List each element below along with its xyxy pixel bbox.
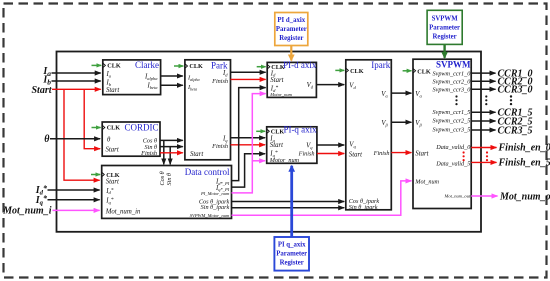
- block U2 Park: [185, 60, 231, 160]
- wire Sin theta_ipark to Ipark: [232, 207, 345, 209]
- clk stub CORDIC: [92, 127, 101, 129]
- svg-text:θ: θ: [44, 134, 50, 145]
- wire output CCR2_5: [471, 120, 495, 122]
- wire Park Finish to PI-d Start: [231, 78, 266, 80]
- dots vertical in CCR label column black: [510, 95, 512, 105]
- wire output Finish_en_0 red: [471, 147, 496, 149]
- wire output CCR1_0: [471, 72, 495, 74]
- wire Cos theta CORDIC to Park: [160, 139, 183, 141]
- wire input Ia: [52, 72, 101, 74]
- arrow PI d register down: [290, 46, 292, 61]
- wire SVPWM_Motor_num magenta to SVPWM: [232, 181, 412, 215]
- svg-text:Data_valid_5: Data_valid_5: [435, 160, 470, 167]
- svg-text:Svpwm_ccr2_0: Svpwm_ccr2_0: [432, 78, 471, 85]
- arrow PI q register up: [290, 166, 293, 237]
- svg-text:Register: Register: [433, 33, 457, 40]
- clk stub PI-d: [257, 66, 266, 68]
- svg-text:CORDIC: CORDIC: [124, 122, 158, 132]
- wire output CCR3_5: [471, 129, 495, 131]
- svg-text:PI-q axix: PI-q axix: [283, 125, 317, 135]
- svg-text:Motor_num: Motor_num: [269, 157, 300, 164]
- svg-text:Start: Start: [270, 142, 284, 149]
- svg-text:Motor_num: Motor_num: [269, 92, 292, 97]
- wire Sin theta CORDIC to Park: [160, 146, 183, 148]
- wire Start branch to Data control: [64, 89, 100, 180]
- wire PI-q Finish to Ipark Start: [317, 153, 344, 155]
- svg-text:PI q_axix: PI q_axix: [278, 242, 306, 249]
- wire Ialpha Clarke to Park: [161, 75, 183, 77]
- block U8 Data control: [102, 166, 232, 219]
- wire CORDIC Finish to Park Start: [160, 152, 183, 154]
- svg-text:Park: Park: [211, 61, 228, 71]
- svg-text:PI-d axix: PI-d axix: [283, 60, 317, 70]
- svg-text:Finish_en_0: Finish_en_0: [498, 143, 550, 154]
- arrow SVPWM register down: [443, 45, 445, 58]
- svg-text:Start: Start: [415, 150, 429, 157]
- wire Park Iq to PI-q: [231, 137, 266, 139]
- svg-text:Finish: Finish: [298, 151, 315, 158]
- svg-text:Start: Start: [31, 85, 52, 96]
- wire Park Finish to PI-q Start: [231, 144, 266, 146]
- svg-text:Svpwm_ccr3_0: Svpwm_ccr3_0: [432, 86, 471, 93]
- svg-text:Start: Start: [106, 147, 120, 154]
- wire output CCR1_5: [471, 111, 495, 113]
- svg-text:Finish: Finish: [211, 78, 228, 85]
- svg-text:Parameter: Parameter: [276, 251, 307, 258]
- svg-text:SVPWM: SVPWM: [436, 60, 471, 70]
- svg-text:Data_valid_0: Data_valid_0: [435, 144, 471, 151]
- clk stub Data control: [91, 174, 100, 176]
- svg-text:Clarke: Clarke: [135, 60, 159, 70]
- block U3 CORDIC: [102, 122, 160, 157]
- wire Cos theta_ipark to Ipark: [232, 201, 345, 203]
- svg-text:Svpwm_ccr1_5: Svpwm_ccr1_5: [432, 109, 470, 116]
- svg-text:Start: Start: [106, 87, 120, 94]
- svg-text:CLK: CLK: [107, 63, 121, 70]
- clk stub Ipark: [335, 69, 344, 71]
- svg-text:CLK: CLK: [417, 68, 431, 75]
- block U4 PI-d axis: [267, 60, 317, 98]
- register box PI d_axix Parameter Register: [275, 13, 308, 46]
- svg-text:Data control: Data control: [185, 167, 230, 177]
- wire Valpha Ipark to SVPWM: [391, 92, 411, 94]
- dots vertical outside SVPWM red: [486, 151, 488, 161]
- svg-text:Svpwm_ccr2_5: Svpwm_ccr2_5: [432, 118, 470, 125]
- clk stub Clarke: [92, 64, 102, 66]
- svg-text:Mot_num_in: Mot_num_in: [105, 208, 141, 215]
- svg-text:Start: Start: [270, 77, 284, 84]
- svg-text:CLK: CLK: [189, 63, 203, 70]
- wire input theta: [50, 138, 100, 140]
- wire Vq PI-q to Ipark: [317, 144, 344, 146]
- svg-text:Svpwm_ccr1_0: Svpwm_ccr1_0: [432, 70, 471, 77]
- wire Sin theta drop to Data control: [169, 147, 171, 165]
- svg-text:Mot_num_o: Mot_num_o: [499, 191, 550, 202]
- clk stub Park: [174, 65, 183, 67]
- register box SVPWM Parameter Register: [427, 10, 462, 44]
- svg-text:Ipark: Ipark: [371, 60, 390, 70]
- wire output CCR2_0: [471, 80, 495, 82]
- wire Ibeta Clarke to Park: [161, 84, 183, 86]
- svg-text:Parameter: Parameter: [276, 26, 307, 33]
- svg-text:CLK: CLK: [107, 125, 121, 132]
- svg-text:CLK: CLK: [271, 129, 285, 136]
- svg-text:CCR3_0: CCR3_0: [498, 85, 533, 96]
- svg-text:Start: Start: [349, 151, 363, 158]
- wire Data control Iq*_PI to PI-q: [232, 154, 266, 187]
- svg-text:Start: Start: [190, 151, 204, 158]
- svg-text:Finish: Finish: [373, 150, 390, 157]
- block U1 Clarke: [103, 60, 161, 95]
- wire Data control Id*_PI to PI-d: [232, 88, 266, 181]
- wire input Start to Clarke: [52, 88, 101, 90]
- wire Vd PI-d to Ipark: [316, 84, 344, 86]
- svg-text:Parameter: Parameter: [429, 24, 460, 31]
- wire PI_Motor_num magenta to PI-d: [232, 94, 266, 193]
- block U7 SVPWM: [413, 59, 471, 208]
- svg-text:SVPWM_Motor_num: SVPWM_Motor_num: [190, 213, 230, 218]
- wire input Ib: [52, 80, 101, 82]
- svg-text:CCR3_5: CCR3_5: [498, 125, 533, 136]
- dots vertical inside SVPWM red: [463, 151, 465, 161]
- clk stub SVPWM: [403, 70, 412, 72]
- wire Ipark Finish to SVPWM Start: [391, 152, 411, 154]
- svg-text:Sin θ_ipark: Sin θ_ipark: [201, 204, 230, 211]
- svg-text:Mot_num_i: Mot_num_i: [2, 205, 52, 216]
- svg-text:Sin θ_ipark: Sin θ_ipark: [349, 204, 378, 211]
- wire Park Id to PI-d: [231, 71, 266, 73]
- clk stub PI-q: [256, 130, 265, 132]
- svg-text:SVPWM: SVPWM: [432, 15, 459, 22]
- svg-text:Register: Register: [280, 260, 304, 267]
- register box PI q_axix Parameter Register: [274, 237, 309, 271]
- svg-text:CLK: CLK: [350, 68, 364, 75]
- outer solid system box: [57, 52, 482, 232]
- wire PI_Motor_num magenta branch to PI-q: [252, 160, 265, 162]
- dots vertical between box and labels black: [485, 95, 487, 105]
- svg-text:Mot_num_out: Mot_num_out: [444, 194, 471, 199]
- wire input Iq*: [48, 199, 100, 201]
- wire Cos theta drop to Data control: [163, 140, 165, 164]
- block U5 PI-q axis: [267, 125, 317, 164]
- svg-text:Register: Register: [279, 35, 303, 42]
- svg-text:Finish: Finish: [140, 150, 157, 157]
- svg-text:Start: Start: [106, 179, 120, 186]
- dots vertical inside SVPWM black: [455, 95, 457, 105]
- svg-text:Svpwm_ccr3_5: Svpwm_ccr3_5: [432, 126, 470, 133]
- wire Start branch to CORDIC: [84, 89, 100, 148]
- wire output CCR3_0: [471, 88, 495, 90]
- svg-text:Finish: Finish: [211, 143, 228, 150]
- wire output Finish_en_5 red: [471, 161, 496, 163]
- wire output Mot_num_o magenta: [471, 195, 497, 197]
- svg-text:PI_Motor_num: PI_Motor_num: [200, 191, 230, 196]
- svg-text:Sin θ: Sin θ: [166, 173, 173, 186]
- svg-text:Finish_en_5: Finish_en_5: [498, 158, 550, 169]
- svg-text:PI d_axix: PI d_axix: [277, 17, 305, 24]
- block U6 Ipark: [346, 60, 392, 211]
- wire Vbeta Ipark to SVPWM: [391, 121, 411, 123]
- svg-text:Mot_num: Mot_num: [414, 179, 439, 186]
- wire input Mot_num_i magenta: [53, 209, 100, 211]
- wire input Id*: [48, 189, 100, 191]
